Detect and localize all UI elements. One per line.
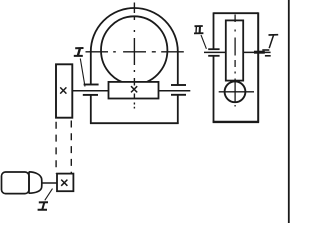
worm box centerline segments (133, 83, 135, 109)
shaft II right segment (159, 90, 191, 92)
motor shaft I (42, 182, 57, 184)
worm box (109, 82, 159, 99)
right view housing right wall (257, 12, 259, 122)
housing right wall upper (177, 51, 179, 85)
shaft III left bearing lower cap (208, 55, 219, 57)
left bearing lower cap (83, 94, 98, 96)
label T glyph (269, 34, 279, 36)
x mark on big pulley (60, 87, 66, 93)
right bearing lower cap (171, 94, 186, 96)
big pulley (56, 64, 72, 117)
right view housing bottom (213, 121, 259, 123)
right view housing left wall lower (213, 56, 215, 123)
right border line (288, 0, 290, 223)
wheel edge-on rect (226, 20, 243, 80)
left bearing upper cap (84, 84, 99, 86)
worm wheel (inner circle) (101, 16, 167, 84)
label III glyph (194, 26, 203, 33)
shaft II left segment (72, 90, 108, 92)
belt dashed line left (55, 122, 57, 174)
small pulley (57, 174, 73, 192)
motor body (2, 172, 30, 194)
wheel horizontal centerline (86, 51, 184, 53)
right view housing top (214, 12, 259, 14)
shaft III left bearing upper cap (208, 48, 219, 50)
shaft III right bearing block (254, 51, 265, 54)
worm shaft line through circle (219, 91, 254, 93)
belt dashed line right (70, 121, 72, 174)
shaft III (204, 51, 271, 53)
wheel vertical centerline (133, 3, 135, 86)
housing outer arc (91, 8, 178, 52)
right view vertical centerline (234, 15, 236, 107)
label II (worm shaft) glyph (74, 48, 84, 56)
motor bell (29, 172, 42, 193)
x mark on worm box (131, 86, 137, 92)
shaft III outer bearing lower cap (265, 55, 271, 57)
label III leader (201, 35, 206, 49)
motor right edge (28, 172, 30, 194)
right bearing upper cap (171, 84, 186, 86)
label I (motor shaft) leader (45, 189, 53, 201)
housing left wall lower (90, 95, 92, 124)
housing right wall lower (177, 95, 179, 124)
housing left wall upper (90, 51, 92, 84)
worm end circle (225, 81, 246, 102)
label I (motor shaft) glyph (38, 202, 48, 210)
x mark on small pulley (61, 180, 67, 186)
housing base (90, 122, 179, 124)
shaft III outer bearing upper cap (262, 49, 269, 51)
right view housing left wall upper (213, 12, 215, 49)
label II (worm shaft) leader (80, 59, 85, 87)
